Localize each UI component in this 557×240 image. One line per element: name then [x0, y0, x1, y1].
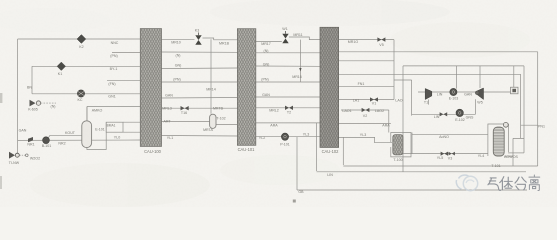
wire LIN product line: [432, 91, 450, 93]
wire T-101 side line: [508, 152, 524, 154]
wire YL5 valve line: [403, 153, 488, 155]
valve YL5: [441, 152, 448, 156]
wire gap1 GAN: [162, 97, 238, 100]
wire bottom heat line: [343, 165, 537, 167]
filter K2 diamond: [77, 35, 86, 44]
compressor E-103: [450, 88, 457, 95]
letdown valve W1: [282, 31, 288, 43]
vessel T-101 with coil: [488, 122, 509, 156]
wire condenser box top: [513, 138, 524, 166]
pump B-101: [43, 137, 50, 144]
wire col3 FN1: [339, 86, 394, 88]
valve T16: [181, 106, 189, 110]
valve V2: [362, 108, 370, 112]
vessel T-102: [210, 114, 216, 128]
wire feed inlet: [17, 152, 19, 153]
page edge mark upper: [0, 93, 2, 103]
wire gap1 MR10: [162, 38, 238, 40]
wire col3 PN1: [339, 73, 521, 75]
wire V5 down leg: [393, 40, 395, 100]
wire recycle inner top: [403, 66, 524, 153]
wire col3 ARA to T-100: [339, 123, 391, 125]
wire gap2 ARA: [256, 122, 320, 124]
booster W5: [475, 88, 483, 100]
wire W5 outlet: [484, 91, 511, 93]
wire T-100 right edge drop: [411, 133, 413, 154]
wire YL3 down leg: [342, 137, 344, 165]
adsorber column CAU-102: [320, 27, 339, 147]
wire E-101 bottom loop: [87, 122, 106, 149]
wire LAO line: [339, 99, 394, 101]
vessel T-100 with jacket: [391, 133, 411, 157]
wire LAO1 V2 line: [341, 110, 389, 133]
wire col3 MR1O V5: [339, 39, 394, 41]
wire gap1 MRL3 valve line: [162, 107, 238, 109]
wire left riser GAN return: [17, 39, 19, 152]
wire GB bottom line: [297, 189, 527, 191]
junction mark GB: [293, 200, 296, 203]
wire lower LIN row: [412, 99, 476, 114]
wire gap1 GN2: [162, 67, 238, 70]
glyph li: [529, 175, 540, 191]
wire KC compressor line: [32, 93, 140, 95]
wire gap1 PN2: [162, 81, 238, 83]
watermark text 气体分离: [488, 175, 540, 191]
wire K1 branch: [32, 66, 140, 94]
wire regeneration gas header left: [18, 38, 141, 40]
wire recycle outer top: [339, 52, 538, 166]
wire LIN bottom line: [317, 171, 527, 173]
check valve WR1: [28, 137, 33, 142]
wire gap2 GAN: [256, 96, 320, 98]
valve V5: [377, 37, 385, 41]
wire E-103 riser: [456, 66, 458, 89]
wire PN stub: [112, 52, 140, 54]
wire col3 upper tap: [339, 60, 394, 62]
wire MR14 riser: [210, 39, 212, 114]
wire gap2 PN2 upper: [256, 52, 320, 54]
valve V4 lower row: [440, 112, 448, 116]
wire WJ riser: [513, 66, 515, 87]
wire AMKO line: [87, 107, 140, 125]
wire purge box lines: [123, 122, 140, 132]
glyph ti: [500, 177, 513, 190]
wire turbine inlet stub: [418, 92, 428, 105]
wire ARA down leg to LIN: [316, 123, 318, 171]
wire expander feed: [394, 80, 412, 116]
wire P-101 down leg: [296, 137, 298, 190]
glyph qi: [488, 178, 501, 190]
motor circle on T-101: [503, 122, 508, 127]
letdown valve K3: [195, 33, 201, 45]
wire feed pump line: [18, 139, 141, 141]
wire gap2 MRL2 valve line: [256, 107, 320, 109]
wire gap2 GN2: [256, 65, 320, 67]
expander T1: [425, 89, 432, 100]
pump P-101: [281, 133, 288, 140]
wire right loop left riser: [402, 66, 404, 172]
wire gap2 YL2 pump line: [256, 136, 320, 138]
compressor KC: [77, 90, 84, 97]
page edge mark lower: [0, 176, 2, 189]
wire KOUT bypass: [48, 135, 82, 138]
wire gap1 MRTA from T-102: [216, 124, 238, 126]
wire FN stub: [107, 80, 140, 82]
filter K1 diamond: [57, 62, 65, 70]
wire gap1 YL1: [162, 135, 238, 138]
wire gap2 MR17-MR11: [256, 37, 320, 42]
adsorber column CAU-101: [237, 29, 255, 146]
wire W5 riser: [479, 66, 481, 88]
valve T2: [285, 106, 293, 110]
blower K-605: [30, 100, 57, 107]
wire PN1 right jog: [521, 74, 538, 138]
wire YL3 to T-100: [339, 137, 392, 142]
watermark logo icon: [456, 175, 477, 191]
wire gap1 ART to T-102: [162, 121, 210, 123]
inlet filter silencer: [9, 152, 28, 159]
adsorber column CAU-100: [140, 29, 161, 147]
wire E-103 outlet: [457, 91, 477, 93]
compressor E-102: [456, 109, 463, 116]
aftercooler WJ box: [511, 87, 519, 94]
regeneration heater box: [106, 122, 123, 132]
wire gap1 N2: [162, 51, 238, 53]
wire T-101 bottom out: [504, 155, 513, 157]
valve V3: [449, 152, 455, 156]
valve V1: [370, 97, 378, 101]
wire gap2 PN2 lower: [256, 81, 320, 83]
glyph fen: [515, 177, 526, 190]
vessel E-101: [82, 107, 92, 148]
wire MR16 riser: [299, 40, 301, 82]
wire AoNO line: [412, 133, 488, 135]
